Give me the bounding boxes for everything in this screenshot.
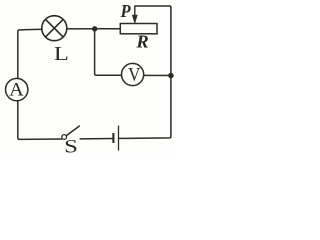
wire: top-left corner to lamp [18, 29, 42, 78]
wiper arrow P [132, 6, 137, 23]
battery cell [113, 126, 118, 151]
battery negative plate (short) [112, 133, 114, 143]
wire: battery positive to bottom-right corner up right side [119, 7, 171, 138]
svg-text:P: P [119, 1, 130, 21]
svg-text:L: L [54, 42, 69, 64]
battery positive plate (long) [118, 126, 120, 151]
svg-text:S: S [64, 135, 78, 155]
lamp L [42, 16, 67, 41]
label R [135, 32, 148, 52]
rheostat R (slide resistor box) [120, 24, 157, 34]
node A (junction dot, lamp/rheostat/voltmeter) [92, 26, 97, 31]
svg-text:R: R [135, 32, 148, 52]
wire: wiper top rail [135, 6, 171, 8]
wire: voltmeter right to node B [144, 74, 171, 76]
switch S [62, 126, 80, 139]
label S [64, 135, 78, 157]
label P [119, 1, 130, 21]
voltmeter V [122, 63, 144, 85]
node B (junction dot on right rail) [168, 73, 174, 79]
svg-text:V: V [128, 63, 140, 84]
wire: ammeter bottom to bottom-left corner to switch [18, 101, 62, 140]
ammeter A [6, 78, 28, 100]
wire: switch right contact to battery [80, 138, 112, 140]
wire: node A down to voltmeter [95, 29, 122, 75]
wire: node A to rheostat left terminal [95, 28, 121, 30]
svg-text:A: A [9, 79, 24, 100]
label L [54, 42, 69, 64]
wire: lamp right to node A [67, 28, 95, 30]
